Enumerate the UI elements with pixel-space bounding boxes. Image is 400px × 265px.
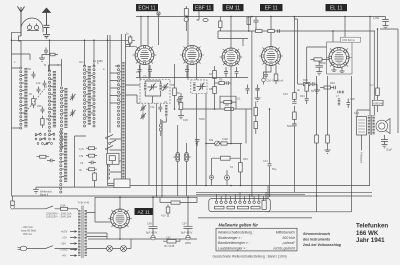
capacitor C15	[227, 81, 231, 85]
svg-text:R30: R30	[303, 78, 308, 82]
svg-text:R5: R5	[171, 83, 175, 87]
wire column tops to bus	[50, 40, 95, 86]
padder trimmer C10	[141, 105, 147, 112]
switch contact column S3	[117, 65, 119, 127]
pickup jack 1	[209, 158, 213, 185]
capacitor C13	[177, 97, 181, 105]
wire x206 down	[205, 94, 207, 186]
wire ties left block	[22, 72, 93, 121]
T1 internal wires	[145, 81, 161, 103]
svg-text:Skalenzeiger » :: Skalenzeiger » :	[218, 236, 242, 240]
svg-text:Feld: Feld	[354, 111, 360, 115]
trimmer C7	[70, 110, 76, 117]
resistor stack R41	[86, 147, 97, 150]
svg-text:50k: 50k	[209, 138, 214, 142]
svg-text:rechts gedreht: rechts gedreht	[273, 247, 296, 251]
svg-text:+4V: +4V	[62, 254, 67, 258]
capacitor C1 aux antenna	[44, 25, 50, 34]
padder terminals	[159, 119, 162, 136]
ground lower left	[33, 187, 39, 193]
T1 secondary trimmer	[161, 83, 169, 91]
grid resistor R22	[320, 86, 334, 89]
resistor R25 right column	[376, 29, 380, 100]
svg-text:C67: C67	[182, 222, 187, 226]
coil L2	[53, 71, 56, 128]
wire x351.5 down	[351, 76, 353, 186]
T1 secondary coil	[159, 84, 161, 92]
coil L8 vertical	[338, 99, 340, 107]
bus screen y31	[218, 30, 375, 32]
svg-text:41V: 41V	[161, 214, 166, 218]
wire B+ rail y197.3	[95, 196, 197, 198]
svg-text:R31: R31	[300, 94, 305, 98]
switch contact column S1b	[48, 70, 50, 132]
resistor R15 EF	[274, 74, 278, 84]
wire ties column H	[110, 66, 121, 103]
AGC filter box	[220, 96, 236, 108]
svg-text:C26: C26	[183, 118, 188, 122]
coil L3	[64, 88, 67, 128]
heater line under tubes	[136, 77, 248, 79]
heater winding wire	[87, 239, 132, 249]
svg-text:M: M	[44, 63, 46, 67]
wire ECH11 grid top left	[140, 17, 142, 47]
svg-text:Osz: Osz	[79, 60, 84, 64]
svg-text:600 kHz: 600 kHz	[283, 236, 296, 240]
tube label EL11	[326, 4, 348, 12]
wire x246	[245, 109, 247, 144]
svg-text:166 WK: 166 WK	[356, 230, 379, 237]
capacitor C8 lower	[47, 159, 55, 163]
resistor R4 with meter circle	[184, 6, 188, 31]
capacitor C66 electrolytic	[149, 197, 158, 235]
bus detector y109	[178, 108, 252, 110]
svg-text:Stromverbrauch: Stromverbrauch	[303, 232, 330, 236]
resistor R10 AGC	[224, 101, 232, 104]
wire speaker return junction	[265, 186, 352, 212]
capacitor C25	[346, 99, 350, 109]
svg-text:2mA bei Vollausschlag: 2mA bei Vollausschlag	[302, 243, 342, 247]
capacitor C35	[195, 140, 200, 147]
svg-text:Gezeichnete Wellenschalterstel: Gezeichnete Wellenschalterstellung : Ban…	[213, 255, 287, 259]
pilot lamp La4	[121, 246, 127, 252]
svg-text:8µF 450V: 8µF 450V	[146, 231, 158, 235]
wire AZ11 cathode down	[119, 228, 121, 239]
resistor R19 screen bus	[268, 30, 275, 33]
switch wafer cluster	[35, 133, 55, 145]
resistor R2	[41, 116, 44, 129]
svg-text:EL 11: EL 11	[330, 6, 343, 12]
T2 trimmer	[197, 83, 206, 91]
mains input capacitor	[11, 196, 15, 209]
speaker	[376, 119, 390, 134]
svg-text:EBF 11: EBF 11	[195, 6, 212, 12]
wire y38.5 branch	[218, 31, 248, 46]
svg-text:etwa 60 Watt: etwa 60 Watt	[21, 229, 36, 233]
tube EF11	[259, 47, 283, 66]
mains wire lower	[27, 248, 46, 250]
resistor stack R42	[86, 154, 97, 157]
dial lamp wire Sp	[157, 12, 160, 45]
svg-text:20µF: 20µF	[386, 148, 392, 152]
field coil box	[357, 117, 367, 136]
resistor R5 mixer	[173, 64, 177, 109]
vertical rail x107.5	[107, 35, 109, 186]
resistor R12	[221, 142, 227, 145]
socket stubs to bus	[217, 186, 269, 202]
T1 primary coil	[144, 84, 146, 92]
tone switch box	[107, 153, 119, 164]
wire ties lower column	[62, 139, 122, 177]
svg-text:Bn 2148: Bn 2148	[165, 244, 175, 248]
wire x74.5	[75, 136, 87, 187]
wire left rail top	[12, 29, 44, 32]
svg-text:~ 220 Volt: ~ 220 Volt	[21, 225, 33, 229]
resistor R7	[213, 66, 217, 87]
capacitor stub EM a	[224, 67, 228, 78]
resistor R21 below EL	[305, 47, 327, 98]
socket strip frame	[209, 199, 270, 212]
padder trimmer C11	[141, 113, 147, 120]
wire x156.5 down	[156, 103, 158, 196]
svg-text:4,7k: 4,7k	[79, 147, 85, 151]
extend lower rail	[108, 186, 115, 188]
svg-text:Band II: Band II	[40, 192, 48, 196]
svg-text:50µ: 50µ	[272, 167, 277, 171]
svg-text:360 mA: 360 mA	[23, 232, 32, 236]
capacitor C3	[37, 87, 41, 94]
ground coupling	[39, 58, 45, 61]
resistor R26	[219, 17, 222, 32]
wire heater rail y239	[88, 238, 197, 240]
chassis ground C66	[151, 236, 155, 240]
oscillator coil L6	[165, 105, 167, 117]
svg-text:C11: C11	[150, 105, 155, 109]
capacitor C22 EM top	[254, 17, 259, 32]
pickup jack 2	[225, 170, 230, 186]
capacitor C24	[334, 86, 336, 90]
mains plug	[18, 246, 27, 251]
dashed coupling line switch	[24, 86, 47, 114]
wire EF to meter	[264, 66, 272, 79]
tube EBF11	[180, 46, 204, 65]
switch contact marks mid	[106, 135, 116, 150]
resistor R23 vertical x316.5	[315, 76, 319, 212]
svg-text:EF 11: EF 11	[265, 6, 278, 12]
coupling switch contacts	[27, 24, 39, 31]
left rail vertical wire	[11, 32, 13, 196]
tube label EF11	[260, 4, 283, 12]
svg-text:C43: C43	[283, 92, 288, 96]
chassis ground C67	[186, 236, 190, 240]
svg-text:C9: C9	[143, 75, 147, 79]
coil L1 antenna	[24, 68, 27, 128]
svg-text:Mittelbereich: Mittelbereich	[276, 231, 295, 235]
wire AZ11 anode top	[119, 197, 121, 209]
separator line above text area	[198, 217, 312, 219]
resistor R20 EL cathode	[311, 58, 330, 61]
resistor R3 lower	[37, 155, 50, 158]
resistor R9	[215, 82, 227, 85]
svg-text:2M: 2M	[225, 103, 229, 107]
tube label ECH11	[136, 4, 158, 12]
resistor in antenna lead	[19, 36, 22, 45]
svg-text:0,8A: 0,8A	[60, 204, 66, 208]
component cluster left of ECH	[126, 35, 132, 46]
resistor R44 vertical	[93, 172, 97, 187]
capacitor C32 mid	[256, 85, 260, 99]
tube label EM11	[223, 4, 244, 12]
gang frame lines	[121, 34, 125, 182]
capacitor C19	[312, 82, 317, 90]
dial lamp La1	[174, 125, 180, 196]
switch contact column S1c	[60, 87, 62, 149]
output transformer secondary	[372, 116, 374, 135]
tube EM11	[220, 48, 243, 66]
trimmer C6	[70, 94, 76, 101]
ground EL cathode	[316, 72, 322, 75]
svg-text:des Instruments: des Instruments	[303, 238, 330, 242]
resistor R17	[298, 83, 313, 86]
svg-text:Telefunken: Telefunken	[356, 223, 388, 230]
capacitor stub EBF a	[185, 65, 189, 78]
capacitor C31 mid	[246, 85, 250, 95]
svg-text:R40: R40	[243, 157, 248, 161]
wire EM11 top feed	[230, 17, 232, 49]
power transformer primary	[78, 210, 80, 256]
antenna coupling arc	[21, 18, 43, 29]
svg-text:C25: C25	[350, 97, 355, 101]
bus bottom y196	[12, 195, 373, 197]
capacitor C2	[32, 72, 36, 79]
svg-text:47k: 47k	[79, 154, 84, 158]
coupling cap cluster	[42, 48, 58, 59]
wire x162 down	[161, 120, 163, 196]
output transformer core	[370, 115, 373, 135]
dial housing box	[108, 179, 131, 188]
tube label AZ11	[135, 208, 154, 215]
wire EL11 screen	[332, 31, 334, 42]
svg-text:+255V: +255V	[60, 248, 68, 252]
wire box to transformer	[377, 106, 379, 113]
tone control box	[212, 156, 241, 160]
volume wire y143.5	[206, 143, 242, 145]
EL11 cathode leg grounds	[332, 66, 345, 73]
output transformer primary	[368, 116, 370, 135]
bus bottom y194.3	[196, 193, 305, 195]
bus bottom y185.5	[108, 185, 371, 187]
bus top B+ y16.5	[136, 16, 386, 18]
resistor R1	[32, 96, 35, 109]
svg-text:EM 11: EM 11	[226, 6, 240, 12]
ground C26	[382, 145, 388, 148]
vertical rail x110	[109, 35, 111, 133]
capacitor C17 EF cathode	[264, 74, 268, 79]
aux antenna arrow	[43, 8, 51, 25]
capacitor C49 top right	[382, 17, 388, 26]
svg-text:+2V: +2V	[62, 236, 67, 240]
measuring point meter	[262, 78, 266, 84]
resistor R14 EM top	[247, 17, 251, 32]
wire x196.5 to bottom	[196, 94, 198, 186]
ground R24	[325, 150, 331, 153]
measurement table box	[216, 228, 297, 251]
svg-text:608148: 608148	[373, 101, 383, 105]
wire EL11 plate to top bus	[344, 17, 346, 43]
svg-text:Wellenschalterstellung :: Wellenschalterstellung :	[218, 231, 254, 235]
IF transformer T1 dashed box	[140, 80, 170, 104]
resistor stack R43	[86, 168, 97, 171]
coil L4 oscillator	[88, 66, 91, 125]
svg-text:TA: TA	[230, 165, 233, 169]
svg-text:Tr Br.H 40: Tr Br.H 40	[78, 201, 90, 205]
filter choke R54	[160, 197, 197, 204]
wire right edge x398	[380, 29, 398, 133]
svg-text:-10V: -10V	[61, 242, 67, 246]
ground C19	[314, 90, 320, 93]
wire vertical x294.4	[293, 17, 295, 193]
svg-text:AZ 11: AZ 11	[137, 209, 150, 215]
capacitor C68 box	[163, 239, 180, 243]
wire EBF top stubs	[188, 11, 199, 46]
wire EBF11 pins down	[188, 64, 197, 80]
wire transformer to AZ11	[87, 197, 96, 212]
antenna A1	[18, 7, 25, 37]
resistor R18 screen bus	[256, 30, 263, 33]
svg-text:0,3M: 0,3M	[222, 137, 228, 141]
svg-text:C67: C67	[166, 236, 171, 240]
wire EM11 stem	[230, 67, 232, 144]
tube AZ11	[108, 209, 132, 228]
svg-text:C4: C4	[80, 161, 84, 165]
resistor R52	[166, 205, 170, 218]
mains switch lower	[46, 246, 78, 249]
svg-text:120: 120	[36, 81, 41, 85]
power transformer secondary	[84, 210, 86, 256]
svg-text:110/125V~ : 2A/0,16A: 110/125V~ : 2A/0,16A	[46, 215, 72, 219]
grid cap EBF	[203, 19, 208, 22]
resistor R11 on bus	[225, 108, 234, 111]
svg-text:5000: 5000	[199, 117, 205, 121]
wire field coil down	[361, 135, 363, 151]
svg-text:„schmal“: „schmal“	[281, 241, 296, 245]
ground detector	[178, 116, 184, 119]
bus bottom y192.3	[196, 191, 372, 193]
svg-text:C66: C66	[147, 222, 152, 226]
capacitor C5	[43, 81, 47, 88]
svg-text:Lautstärkeregler » :: Lautstärkeregler » :	[218, 247, 247, 251]
svg-text:Meßwerte gelten für: Meßwerte gelten für	[219, 222, 259, 227]
tube EL11	[326, 47, 351, 67]
wire ties gang to T1	[126, 85, 141, 103]
capacitor C18b	[292, 124, 297, 126]
wire x369.5 to return	[369, 135, 371, 186]
wire EF11 pins down	[266, 65, 276, 74]
capacitor stub ECH a	[138, 65, 142, 78]
wire AZ filament	[95, 213, 111, 223]
EL11 output stage box	[327, 42, 353, 74]
capacitor C20 screen	[278, 29, 280, 33]
switch contact column S1a	[20, 67, 22, 129]
switch contact column S2a	[83, 65, 85, 127]
capacitor C12	[158, 104, 162, 112]
wire EF11 top pin	[270, 17, 272, 47]
svg-text:1,9W: 1,9W	[373, 16, 380, 20]
socket end element	[262, 200, 266, 209]
svg-text:Bandbreitenregler » :: Bandbreitenregler » :	[218, 241, 250, 245]
T1 primary trimmer	[148, 83, 158, 91]
resistor R13 vertical	[239, 144, 243, 186]
ground top right	[383, 26, 389, 29]
capacitor C18 on x294	[292, 101, 298, 106]
tuning gang bar	[122, 62, 124, 182]
resistor R8	[213, 87, 217, 110]
resistor R24 vertical x327.5	[326, 76, 330, 150]
tone coil L7	[338, 91, 345, 93]
svg-text:280V: 280V	[185, 241, 191, 245]
svg-text:ECH 11: ECH 11	[138, 6, 155, 12]
svg-text:R9: R9	[219, 78, 223, 82]
svg-text:0,1: 0,1	[237, 97, 241, 101]
wire x166.3 tail	[162, 117, 166, 122]
wire lower block rail	[36, 186, 108, 188]
coil L5 short-wave	[64, 133, 67, 182]
ground C32	[255, 98, 261, 101]
capacitor C4	[41, 107, 45, 114]
fuse	[61, 207, 78, 210]
svg-text:C47: C47	[263, 159, 268, 163]
wire gang to ECH grid	[126, 40, 136, 46]
wire right rail x370	[369, 17, 371, 116]
svg-text:+4,5V: +4,5V	[61, 230, 68, 234]
mains switch	[46, 206, 61, 209]
volume potentiometer	[215, 141, 220, 146]
socket contacts	[215, 201, 265, 204]
wire ECH11 top pin 2	[147, 17, 149, 47]
T2 coil	[193, 83, 195, 92]
svg-text:R7: R7	[209, 72, 213, 76]
capacitor C21 EL cathode	[316, 61, 324, 72]
wire x149 down	[148, 103, 150, 185]
svg-text:R8: R8	[209, 87, 213, 91]
svg-text:R22: R22	[330, 81, 335, 85]
resistor R33 vertical	[254, 102, 258, 122]
wire antenna stem into coil block	[20, 45, 22, 68]
detector resistor R6	[179, 98, 183, 115]
pilot lamp La3	[107, 246, 113, 252]
svg-text:250: 250	[37, 104, 42, 108]
contact column lower S5	[107, 165, 109, 179]
capacitor C26 20uF	[381, 135, 388, 145]
tube ECH11	[133, 46, 157, 65]
detector capacitor C14	[179, 93, 183, 98]
junction dot EBF	[187, 16, 189, 18]
transformer taps	[70, 231, 77, 257]
svg-text:Feldspule: Feldspule	[360, 152, 364, 164]
resistor R16 on x294	[293, 93, 297, 100]
svg-text:Jahr 1941: Jahr 1941	[356, 237, 385, 244]
svg-text:4,7: 4,7	[370, 83, 374, 87]
wire vertical x251.9	[251, 31, 253, 196]
wire ECH11 pins down	[140, 64, 149, 80]
wire left rail branches	[12, 54, 62, 128]
svg-text:0,84 32mA: 0,84 32mA	[342, 38, 355, 42]
power transformer core	[82, 206, 83, 259]
mains wire upper	[14, 208, 45, 210]
wire speaker top feed	[357, 110, 370, 117]
capacitor stub ECH b	[148, 65, 152, 78]
bus left block y40	[12, 39, 136, 41]
